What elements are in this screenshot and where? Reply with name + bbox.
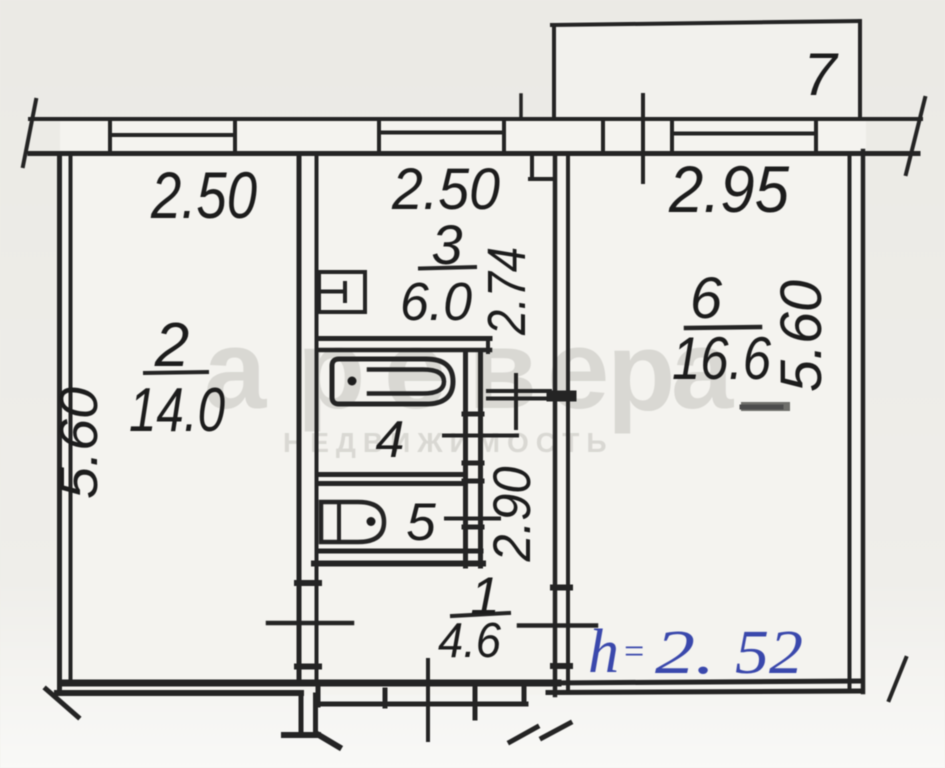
bath bottom wall inner line <box>318 549 481 554</box>
label 3 underline <box>420 267 475 269</box>
bath right wall rung1 <box>464 412 482 417</box>
door jamb rung lower (room6) <box>553 663 570 669</box>
balcony left edge <box>552 25 556 119</box>
band divider x816 <box>814 119 818 153</box>
sill dim tick <box>514 375 518 428</box>
bottom wall top line <box>62 680 558 687</box>
leader 4.6 left <box>268 621 352 626</box>
svg-text:h: h <box>588 618 619 686</box>
window 2 inner line <box>381 131 501 135</box>
divider wall 4|5 line1 <box>319 472 464 477</box>
label 1 underline <box>452 613 509 616</box>
door jamb rung upper (room6) <box>553 585 570 591</box>
swallow slash a <box>510 727 537 742</box>
kitchen stove outer <box>319 272 365 312</box>
svg-text:5.60: 5.60 <box>769 280 834 392</box>
toilet tank divider <box>337 503 341 541</box>
left wall bottom slash <box>46 689 78 717</box>
stub above band x521 <box>519 95 523 119</box>
watermark underscore <box>741 402 790 411</box>
band divider x672 <box>670 119 674 153</box>
svg-text:2.50: 2.50 <box>150 158 257 232</box>
right wall outer line <box>861 151 866 692</box>
wall band bottom line <box>30 151 918 156</box>
svg-text:р: р <box>607 309 675 434</box>
svg-text:2.: 2. <box>655 619 715 687</box>
room6 bottom wall top line <box>548 681 859 683</box>
svg-text:14.0: 14.0 <box>129 376 225 445</box>
svg-text:7: 7 <box>803 41 839 108</box>
stub left line <box>299 695 304 733</box>
wall band top line <box>30 117 921 121</box>
band divider x235 <box>233 119 237 153</box>
dim tick x643 <box>641 95 645 182</box>
band divider x110 <box>108 119 112 153</box>
bathtub drain dot <box>348 377 357 386</box>
step right vertical <box>522 686 527 704</box>
svg-text:4.6: 4.6 <box>438 614 502 668</box>
bath right wall rung2 <box>464 461 482 466</box>
room6 bottom wall bottom line <box>548 691 860 693</box>
wall 3|6 left line <box>553 155 558 695</box>
svg-text:2.90: 2.90 <box>483 466 542 562</box>
leader of label 5 <box>446 517 499 521</box>
svg-text:2: 2 <box>154 311 189 380</box>
vent box bottom <box>530 177 553 181</box>
svg-text:НЕДВИЖИМОСТЬ: НЕДВИЖИМОСТЬ <box>283 427 613 458</box>
wall 2|3 left line <box>297 155 302 681</box>
balcony top edge <box>552 21 860 25</box>
door jamb rung lower <box>297 664 319 670</box>
small tick x476 <box>473 686 478 718</box>
bath top wall right end <box>486 338 490 352</box>
svg-text:5.60: 5.60 <box>49 387 109 499</box>
bathtub inner <box>369 370 444 394</box>
bath right wall rung4 <box>464 525 482 530</box>
bath right wall right line <box>478 352 483 566</box>
svg-text:4: 4 <box>376 411 405 469</box>
svg-text:3: 3 <box>431 213 462 276</box>
toilet dot <box>367 517 376 526</box>
balcony right edge <box>858 21 862 115</box>
label 6 underline <box>686 327 760 328</box>
divider wall 4|5 line2 <box>319 481 464 486</box>
svg-text:52: 52 <box>735 619 803 687</box>
bath bottom wall outer line <box>314 561 483 567</box>
step bottom line <box>316 702 526 707</box>
sill bottom line <box>488 397 550 401</box>
leader 4.6 right <box>519 623 596 628</box>
window 3 inner line <box>674 132 814 136</box>
dim slash left end <box>23 100 36 166</box>
bath top wall line1 <box>317 336 490 341</box>
band divider x504 <box>502 119 506 153</box>
dim slash right end <box>906 98 925 174</box>
stub right line <box>313 695 318 734</box>
band divider x379 <box>377 119 381 153</box>
door jamb rung upper <box>297 580 319 586</box>
window 1 inner line <box>112 133 233 137</box>
left wall inner line <box>69 155 73 684</box>
bathtub outer <box>332 359 453 404</box>
svg-text:6: 6 <box>690 266 723 331</box>
bottom wall lower line (left part) <box>57 690 301 696</box>
watermark big: аревера <box>204 307 734 434</box>
stub slash <box>317 734 339 747</box>
stove inner horizontal <box>322 290 345 294</box>
svg-text:2.95: 2.95 <box>668 152 789 226</box>
bath right wall rung3 <box>464 479 482 484</box>
room6 bottom-right dim slash <box>889 658 906 700</box>
sill rung across wall 3|6 <box>552 391 571 402</box>
sill top line <box>488 389 550 393</box>
leader of label 4 <box>444 434 517 438</box>
svg-text:5: 5 <box>406 493 436 552</box>
vent box vertical <box>530 156 534 179</box>
left wall outer line <box>57 155 62 691</box>
bath top wall line2 <box>317 348 490 353</box>
wall 2|3 right line <box>315 155 319 678</box>
wall 3|6 right line <box>566 155 570 692</box>
band divider x603 <box>601 119 605 153</box>
tall dim tick x428 <box>426 660 430 740</box>
toilet fixture <box>321 502 384 542</box>
right wall inner line <box>848 153 852 690</box>
step left vertical <box>316 686 321 705</box>
label 2 underline <box>145 372 207 373</box>
stub foot line <box>284 732 318 738</box>
svg-text:6.0: 6.0 <box>400 272 472 332</box>
stove inner vertical <box>343 283 347 301</box>
small tick x385 <box>383 690 388 706</box>
svg-text:16.6: 16.6 <box>672 325 772 392</box>
swallow slash b <box>542 723 570 738</box>
16.6 stub line <box>742 405 781 410</box>
svg-text:2.74: 2.74 <box>477 247 537 336</box>
bath right wall left line <box>463 352 468 566</box>
svg-text:=: = <box>624 631 644 671</box>
